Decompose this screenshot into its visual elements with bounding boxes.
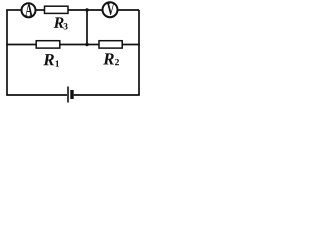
- node: junction top: [85, 8, 88, 11]
- resistor R1: [36, 41, 60, 48]
- resistor R3: [45, 6, 69, 13]
- label R1: [43, 54, 54, 65]
- wire: ammeter to R3: [36, 9, 45, 11]
- battery B1 short thick plate: [70, 90, 73, 99]
- wire: bottom right segment: [74, 94, 140, 96]
- wire: voltmeter to top-right corner: [118, 9, 140, 11]
- ammeter A1: [22, 3, 36, 17]
- wire: right edge vertical: [138, 10, 140, 95]
- wire: middle branch left segment: [6, 44, 36, 46]
- wire: mid vertical from top junction: [86, 10, 88, 45]
- wire: left edge vertical: [6, 10, 8, 95]
- battery B1 long plate: [67, 87, 69, 103]
- wire: bottom left segment: [6, 94, 67, 96]
- wire: R1 to R2 through mid junction: [60, 44, 99, 46]
- voltmeter V1: [103, 2, 118, 17]
- wire: R3 to voltmeter through junction: [68, 9, 103, 11]
- node: junction middle: [85, 43, 88, 46]
- resistor R2: [99, 41, 122, 48]
- label R2: [103, 53, 114, 64]
- background: [0, 0, 148, 104]
- wire: top left segment to ammeter: [6, 9, 21, 11]
- label R3: [54, 17, 64, 27]
- wire: middle branch right segment: [122, 44, 140, 46]
